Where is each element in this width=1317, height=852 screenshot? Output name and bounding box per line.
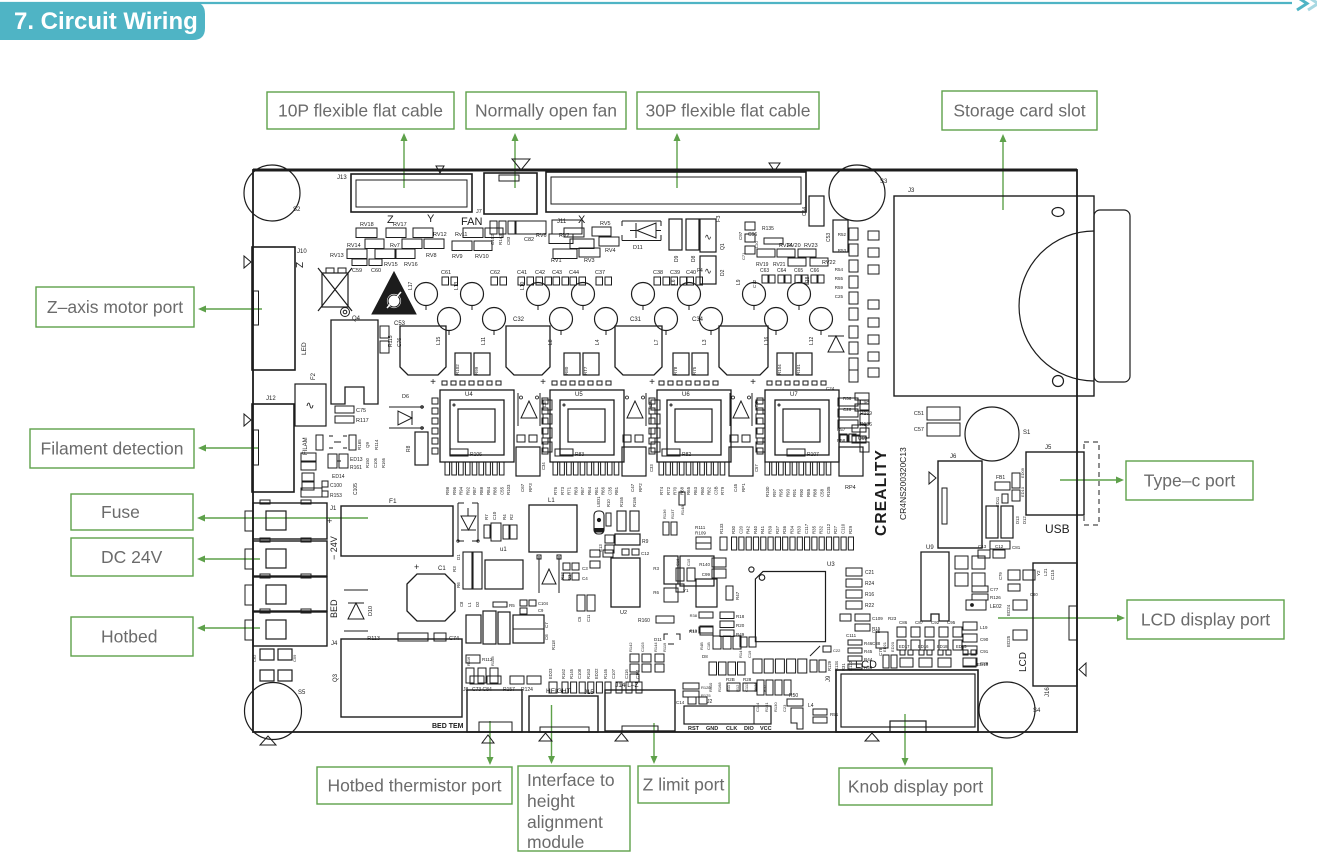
svg-text:FILAM: FILAM <box>303 437 309 455</box>
svg-text:D1: D1 <box>456 554 461 560</box>
svg-text:RV13: RV13 <box>330 253 344 259</box>
text FAN <box>461 216 482 228</box>
capacitor squares below terminals <box>252 649 297 681</box>
svg-text:RV5: RV5 <box>600 221 611 227</box>
svg-text:R73: R73 <box>560 486 565 495</box>
svg-text:D9: D9 <box>674 255 680 262</box>
svg-text:R136: R136 <box>860 422 872 428</box>
svg-text:L1: L1 <box>548 498 555 504</box>
svg-text:DC 24V: DC 24V <box>101 547 163 567</box>
polarity marks <box>430 377 756 388</box>
svg-text:C35: C35 <box>607 486 612 495</box>
arrow to filament label <box>198 445 258 452</box>
svg-text:C60: C60 <box>371 268 381 274</box>
svg-text:R13T: R13T <box>670 509 675 519</box>
svg-text:D2: D2 <box>720 269 726 276</box>
svg-text:VCC: VCC <box>760 726 772 732</box>
svg-text:Q3: Q3 <box>333 673 339 682</box>
arrow to 10P cable label <box>401 133 408 188</box>
svg-text:L21: L21 <box>1043 568 1048 576</box>
svg-text:LCD: LCD <box>1018 652 1029 672</box>
svg-text:RV8: RV8 <box>426 253 437 259</box>
svg-text:R133: R133 <box>719 523 724 534</box>
svg-text:C91: C91 <box>980 649 989 654</box>
resistor R160 <box>638 616 674 624</box>
svg-text:RST: RST <box>688 726 700 732</box>
svg-text:RV18: RV18 <box>360 222 374 228</box>
battery symbol Q4 <box>318 268 361 322</box>
svg-text:R78: R78 <box>673 366 678 375</box>
resistors R50 L4 R51 R21 <box>787 693 839 729</box>
svg-text:ED17: ED17 <box>899 644 910 649</box>
svg-text:R76: R76 <box>553 486 558 495</box>
resistor R136 capacitor C96 <box>741 226 783 260</box>
diode D11 <box>622 221 661 251</box>
svg-text:Rv7: Rv7 <box>390 243 400 249</box>
storage card slot J3 <box>894 188 1130 396</box>
svg-text:C74: C74 <box>449 636 459 642</box>
svg-text:U2: U2 <box>620 610 627 616</box>
label box Normally open fan <box>466 92 626 129</box>
svg-text:ED11: ED11 <box>995 496 1000 507</box>
svg-text:C87: C87 <box>915 620 924 625</box>
svg-text:CLK: CLK <box>726 726 737 732</box>
connector J12 filament detection <box>252 396 309 492</box>
svg-text:R82: R82 <box>682 452 691 458</box>
crystal cluster Y1 C15 C16 <box>675 558 695 593</box>
svg-text:R90: R90 <box>799 488 804 497</box>
svg-text:C67: C67 <box>520 483 525 492</box>
svg-text:R145: R145 <box>569 668 574 679</box>
section banner 7. Circuit Wiring <box>0 2 205 40</box>
svg-text:C53: C53 <box>826 233 832 242</box>
edge mark triangle usb <box>929 472 936 484</box>
svg-text:Knob display port: Knob display port <box>848 777 983 797</box>
svg-text:C77: C77 <box>990 587 999 592</box>
svg-text:R160: R160 <box>638 618 650 624</box>
svg-text:C106: C106 <box>373 457 378 468</box>
svg-text:C45: C45 <box>733 483 738 492</box>
svg-text:D3: D3 <box>567 574 572 580</box>
svg-text:C20: C20 <box>738 525 743 534</box>
connector J10 Z-axis motor <box>252 247 308 370</box>
svg-text:alignment: alignment <box>527 812 603 832</box>
svg-text:R23: R23 <box>888 616 897 621</box>
label box Filament detection <box>30 429 194 468</box>
svg-text:R52: R52 <box>838 232 847 237</box>
svg-text:C88: C88 <box>872 641 881 646</box>
svg-text:R65: R65 <box>686 486 691 495</box>
svg-text:R20: R20 <box>736 623 745 628</box>
svg-text:RP4: RP4 <box>845 485 856 491</box>
svg-text:C23: C23 <box>782 704 787 712</box>
svg-text:ED16: ED16 <box>918 644 929 649</box>
label box Hotbed thermistor port <box>317 767 512 804</box>
svg-text:height: height <box>527 791 575 811</box>
svg-text:7. Circuit Wiring: 7. Circuit Wiring <box>14 8 198 35</box>
svg-text:J8: J8 <box>463 687 469 693</box>
arrow to hotbed label <box>197 625 260 632</box>
svg-text:R130: R130 <box>773 702 778 712</box>
svg-text:U3: U3 <box>827 562 835 568</box>
svg-text:R81: R81 <box>614 486 619 495</box>
label box Type-c port <box>1126 461 1253 500</box>
svg-text:R157: R157 <box>503 687 515 693</box>
svg-text:C12: C12 <box>641 551 650 556</box>
svg-text:R80: R80 <box>564 366 569 375</box>
svg-text:RT7: RT7 <box>583 366 588 375</box>
svg-text:CREALITY: CREALITY <box>873 449 890 536</box>
svg-text:u1: u1 <box>500 547 507 553</box>
svg-text:R53: R53 <box>838 248 847 253</box>
svg-text:+: + <box>540 377 546 388</box>
fuse F2 <box>295 372 326 426</box>
svg-text:GND: GND <box>706 726 718 732</box>
svg-text:C42: C42 <box>535 270 545 276</box>
resistor cluster R13 <box>689 626 713 635</box>
svg-text:C81: C81 <box>1012 545 1021 550</box>
svg-text:R36: R36 <box>782 525 787 534</box>
capacitor row C37-C44 C61 C62 <box>441 270 703 285</box>
svg-text:R116: R116 <box>466 656 471 666</box>
svg-text:C115: C115 <box>1050 569 1055 580</box>
svg-text:C34: C34 <box>541 462 546 470</box>
svg-text:+: + <box>430 377 436 388</box>
svg-text:R7: R7 <box>484 514 489 520</box>
svg-text:L10: L10 <box>520 281 526 290</box>
connector J2 ISP header <box>684 699 772 732</box>
svg-text:R148: R148 <box>680 505 685 515</box>
svg-text:R92: R92 <box>465 486 470 495</box>
resistor networks R82 R83 R106 R107 <box>450 449 819 458</box>
svg-text:R124: R124 <box>521 687 533 693</box>
svg-text:L4: L4 <box>808 703 814 709</box>
svg-text:L12: L12 <box>809 336 815 345</box>
svg-text:+: + <box>649 377 655 388</box>
svg-text:J9: J9 <box>826 675 832 682</box>
svg-text:C83: C83 <box>506 236 511 245</box>
capacitors C104 C9 <box>520 600 549 614</box>
svg-text:Y: Y <box>427 213 435 225</box>
pin1 mark triangle top C <box>769 163 780 171</box>
svg-text:R144: R144 <box>653 642 658 652</box>
header chevron dark <box>1297 0 1307 10</box>
capacitor C1 <box>407 562 455 621</box>
svg-text:+: + <box>327 516 332 526</box>
resistors R140 C99 <box>699 558 726 578</box>
svg-text:R151: R151 <box>764 702 769 712</box>
resistors C109 R23 R15 C78 <box>840 614 897 656</box>
svg-text:C71: C71 <box>741 252 746 260</box>
svg-text:R119: R119 <box>662 642 667 652</box>
label box Z-axis motor port <box>36 287 194 327</box>
svg-text:RV10: RV10 <box>475 254 489 260</box>
arrow to 30P cable label <box>674 133 681 188</box>
svg-text:R71: R71 <box>567 486 572 495</box>
svg-text:C104: C104 <box>538 601 549 606</box>
svg-text:Hotbed thermistor port: Hotbed thermistor port <box>327 776 501 796</box>
svg-text:C111: C111 <box>846 633 857 638</box>
svg-text:Z–axis motor port: Z–axis motor port <box>47 297 183 317</box>
svg-text:R8: R8 <box>406 445 412 452</box>
svg-text:C7: C7 <box>544 622 549 628</box>
svg-text:R16: R16 <box>865 592 874 598</box>
svg-text:U7: U7 <box>790 392 798 398</box>
svg-text:C58: C58 <box>819 488 824 497</box>
header chevron light <box>1308 0 1317 10</box>
screw hole S2 <box>244 165 301 221</box>
svg-text:R18: R18 <box>736 614 745 619</box>
diode D1 / resistors R3 R6 <box>452 552 482 589</box>
svg-text:C19: C19 <box>747 650 752 658</box>
svg-text:R40: R40 <box>753 525 758 534</box>
svg-text:R143: R143 <box>498 234 503 245</box>
svg-text:D11: D11 <box>654 637 662 642</box>
screw hole S1 <box>965 407 1031 461</box>
svg-text:L3: L3 <box>702 339 708 345</box>
svg-text:C99: C99 <box>702 572 711 577</box>
svg-text:R35: R35 <box>811 525 816 534</box>
svg-text:U9: U9 <box>926 545 934 551</box>
inductor row L4 L7 L8 L11 L15 <box>436 308 833 346</box>
capacitor cluster C8 L2 D2 <box>459 601 515 644</box>
svg-text:R101: R101 <box>796 364 801 375</box>
svg-text:R12B: R12B <box>701 685 711 690</box>
svg-text:C97: C97 <box>738 231 743 240</box>
svg-text:R41: R41 <box>760 525 765 534</box>
svg-text:R96: R96 <box>452 486 457 495</box>
svg-text:C57: C57 <box>754 464 759 472</box>
connector bed thermistor <box>467 690 522 732</box>
svg-text:D13: D13 <box>1015 516 1020 524</box>
svg-text:RV4: RV4 <box>605 248 616 254</box>
svg-text:C12: C12 <box>995 544 1004 549</box>
svg-text:R117: R117 <box>356 418 369 424</box>
svg-text:C10: C10 <box>492 511 497 520</box>
svg-text:C41: C41 <box>517 270 527 276</box>
svg-text:C6: C6 <box>544 634 549 640</box>
svg-text:30P flexible flat cable: 30P flexible flat cable <box>645 101 810 121</box>
diode row ED15-ED19 <box>882 641 989 668</box>
svg-text:C47: C47 <box>630 483 635 492</box>
connector J6 USB <box>938 454 982 548</box>
svg-text:Filament detection: Filament detection <box>41 439 184 459</box>
svg-text:R54: R54 <box>835 267 844 272</box>
led LE02 <box>966 600 1002 610</box>
label box 30P flexible flat cable <box>637 92 819 129</box>
svg-text:C85: C85 <box>872 629 881 634</box>
svg-text:R4B: R4B <box>699 642 704 650</box>
svg-text:RP1: RP1 <box>741 483 746 492</box>
svg-text:ED22: ED22 <box>594 668 599 679</box>
svg-text:R13: R13 <box>689 629 698 634</box>
svg-text:RV14: RV14 <box>347 243 361 249</box>
capacitors C3 C4 <box>563 563 588 581</box>
svg-text:R59: R59 <box>835 285 844 290</box>
svg-text:Normally open fan: Normally open fan <box>475 101 617 121</box>
svg-text:C95: C95 <box>947 620 956 625</box>
svg-text:J5: J5 <box>1045 445 1052 451</box>
svg-text:C22: C22 <box>833 648 841 653</box>
svg-text:C103: C103 <box>640 642 645 652</box>
svg-text:R113: R113 <box>367 636 380 642</box>
svg-text:FAN: FAN <box>461 216 482 228</box>
svg-text:J13: J13 <box>337 175 347 181</box>
resistor row J8 C73 C84 R157 R124 <box>463 676 541 693</box>
svg-text:R66: R66 <box>601 486 606 495</box>
svg-text:R42: R42 <box>746 525 751 534</box>
svg-text:D11: D11 <box>633 245 643 251</box>
svg-text:U6: U6 <box>682 392 690 398</box>
label box DC 24V <box>71 538 193 576</box>
svg-text:C114: C114 <box>755 702 760 712</box>
svg-text:C37: C37 <box>595 270 605 276</box>
svg-text:R37: R37 <box>775 525 780 534</box>
svg-text:C13: C13 <box>978 544 987 549</box>
connector J5 dashed outline <box>1045 442 1099 525</box>
silkscreen CREALITY logo <box>873 447 908 536</box>
svg-text:J2: J2 <box>707 699 713 705</box>
svg-text:C65: C65 <box>794 268 803 274</box>
svg-text:R64: R64 <box>587 486 592 495</box>
svg-text:R125: R125 <box>701 693 711 698</box>
inductor L1 <box>529 498 577 559</box>
connector J16 LCD display <box>1018 563 1077 697</box>
edge mark triangle bottom C <box>865 733 879 741</box>
edge mark triangle right <box>1079 663 1086 676</box>
svg-text:C63: C63 <box>760 268 769 274</box>
svg-text:C107: C107 <box>611 668 616 679</box>
text J11 <box>557 219 567 225</box>
svg-text:RV3: RV3 <box>584 258 595 264</box>
svg-text:+: + <box>414 562 419 572</box>
resistor column R52-R59 ED1-ED8 <box>826 228 879 412</box>
resistor R113 / capacitor C74 <box>367 633 459 642</box>
svg-text:Storage card slot: Storage card slot <box>953 101 1085 121</box>
svg-text:C92: C92 <box>931 620 940 625</box>
svg-text:C86: C86 <box>899 620 908 625</box>
svg-text:R126: R126 <box>990 595 1001 600</box>
svg-text:D6: D6 <box>402 394 409 400</box>
resistor cluster R142 C103 R144 R119 <box>628 642 707 705</box>
power terminal blocks J1/J4 (24V & hotbed) <box>245 500 339 647</box>
arrow to knob display label <box>902 714 909 766</box>
svg-text:R12: R12 <box>560 572 565 580</box>
svg-text:R9: R9 <box>642 539 649 545</box>
svg-text:R118: R118 <box>551 640 556 650</box>
connector J15 height module <box>529 688 598 741</box>
svg-text:S2: S2 <box>293 207 301 213</box>
potentiometer array RV7-RV18 <box>330 222 503 274</box>
connector 30P FFC <box>546 172 806 212</box>
svg-text:F1: F1 <box>389 498 397 505</box>
svg-text:ED21: ED21 <box>882 641 887 652</box>
capacitors C98 R139 R136b <box>838 398 872 442</box>
svg-text:ED20: ED20 <box>890 641 895 652</box>
connector J14 Z limit <box>605 682 675 741</box>
svg-text:R33: R33 <box>797 525 802 534</box>
svg-text:Q1: Q1 <box>720 243 726 250</box>
text BED TEM <box>432 723 464 730</box>
svg-text:U5: U5 <box>575 392 583 398</box>
svg-text:R2: R2 <box>509 514 514 520</box>
svg-text:L6: L6 <box>671 279 677 285</box>
svg-text:BED: BED <box>329 599 339 618</box>
svg-text:R47: R47 <box>735 591 740 600</box>
label box 10P flexible flat cable <box>267 92 454 129</box>
svg-text:C5: C5 <box>577 616 582 622</box>
svg-text:R153: R153 <box>330 493 342 499</box>
svg-text:R95: R95 <box>779 488 784 497</box>
svg-text:LCD display port: LCD display port <box>1141 610 1270 630</box>
svg-text:RV17: RV17 <box>393 222 407 228</box>
arrow to DC24V label <box>197 556 260 563</box>
label box Knob display port <box>839 768 992 805</box>
svg-text:R135: R135 <box>762 226 774 232</box>
arrow to fan label <box>512 133 519 188</box>
connector J13 10P FFC <box>337 174 472 212</box>
label box Z limit port <box>638 766 729 803</box>
svg-text:C72: C72 <box>752 279 757 288</box>
svg-text:C3: C3 <box>582 566 588 571</box>
svg-text:ED14: ED14 <box>332 474 345 480</box>
resistors R136 R137 R148 <box>662 492 685 535</box>
svg-text:RV9: RV9 <box>452 254 463 260</box>
edge mark triangle left A <box>244 256 251 268</box>
svg-text:C79: C79 <box>998 572 1003 580</box>
svg-text:Fuse: Fuse <box>101 502 140 522</box>
svg-text:C75: C75 <box>356 408 366 414</box>
svg-text:L1: L1 <box>467 602 472 607</box>
svg-text:R156: R156 <box>632 496 637 507</box>
driver ICs U4 U5 U6 U7 <box>432 390 839 462</box>
svg-text:R99: R99 <box>474 366 479 375</box>
svg-text:R67: R67 <box>580 486 585 495</box>
svg-text:R105: R105 <box>826 486 831 497</box>
svg-text:module: module <box>527 832 584 852</box>
header rule <box>0 2 1292 4</box>
capacitor cluster ED13 R161 <box>301 453 386 471</box>
svg-text:D8: D8 <box>691 255 697 262</box>
warning triangle hot surface <box>372 272 416 314</box>
svg-text:C11: C11 <box>586 614 591 622</box>
svg-text:R84: R84 <box>486 486 491 495</box>
svg-text:J7: J7 <box>476 209 482 215</box>
resistors R47 R18 R20 R49 <box>690 579 745 637</box>
svg-text:C82: C82 <box>524 237 534 243</box>
capacitor C75 / resistor R117 <box>335 406 369 424</box>
svg-text:+: + <box>750 377 756 388</box>
svg-text:R93: R93 <box>785 488 790 497</box>
capacitors right of U9 <box>955 556 985 586</box>
svg-text:C117: C117 <box>804 523 809 534</box>
svg-text:C59: C59 <box>352 268 362 274</box>
svg-text:R165: R165 <box>357 439 362 450</box>
edge mark triangle left B <box>244 414 251 426</box>
pin rows below driver ICs <box>445 462 831 475</box>
capacitor row under U3 <box>753 646 820 673</box>
svg-text:R91: R91 <box>792 488 797 497</box>
MCU U3 <box>749 562 836 642</box>
svg-text:J1: J1 <box>330 506 337 512</box>
svg-text:J16: J16 <box>1045 687 1051 697</box>
svg-text:10P flexible flat cable: 10P flexible flat cable <box>278 101 443 121</box>
diode D5 <box>457 503 479 542</box>
svg-text:R87: R87 <box>472 486 477 495</box>
svg-text:R142: R142 <box>628 642 633 652</box>
usb components FB1 ED09-ED11 D12 D13 <box>986 467 1027 550</box>
svg-text:R29: R29 <box>848 525 853 534</box>
